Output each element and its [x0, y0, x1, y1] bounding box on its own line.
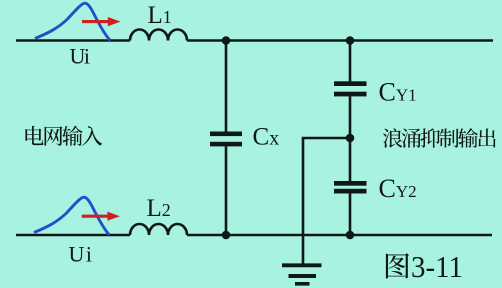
capacitor CY1 plates: [334, 81, 367, 86]
label: 浪涌抑制输出 (surge suppression output): [383, 128, 403, 147]
svg-text:Ui: Ui: [70, 44, 91, 69]
capacitor CX plates: [210, 132, 242, 137]
junction dot node: top line / CY1: [346, 36, 355, 45]
junction dot node: top line / CX: [222, 36, 231, 45]
wire: CY middle segment: [349, 96, 352, 181]
input surge pulse, top (blue): [35, 3, 111, 40]
wire: bottom line, left segment: [16, 234, 130, 237]
label: 电网输入 (mains input): [25, 126, 43, 145]
inductor L2: [130, 224, 187, 235]
input surge pulse, bottom (blue): [34, 197, 110, 235]
junction dot node: CY1-CY2 midpoint / ground: [346, 134, 355, 143]
capacitor CX branch: top lead: [225, 41, 228, 133]
wire: top line L, left segment: [16, 39, 130, 42]
junction dot node: bottom line / CX: [222, 231, 231, 240]
capacitor CY2 bottom lead: [349, 194, 352, 236]
label: 图3-11 (figure caption): [386, 253, 409, 278]
wire: top line, right segment: [187, 39, 493, 42]
svg-text:L2: L2: [147, 195, 171, 222]
svg-text:3-11: 3-11: [411, 249, 463, 284]
capacitor CX bottom lead: [225, 146, 228, 235]
capacitor CY1 branch: top lead: [349, 41, 352, 82]
ground symbol: [282, 263, 322, 267]
svg-text:Ui: Ui: [69, 242, 93, 267]
wire: bottom line, right segment: [187, 234, 492, 237]
capacitor CY2 plates: [334, 181, 367, 186]
svg-text:Cx: Cx: [253, 123, 280, 150]
svg-text:L1: L1: [148, 2, 172, 29]
junction dot node: bottom line / CY2: [346, 231, 355, 240]
arrow, top (red): [82, 20, 109, 23]
wire: ground branch from CY junction: [303, 138, 350, 264]
inductor L1: [130, 30, 187, 41]
arrow, bottom (red): [82, 215, 108, 218]
